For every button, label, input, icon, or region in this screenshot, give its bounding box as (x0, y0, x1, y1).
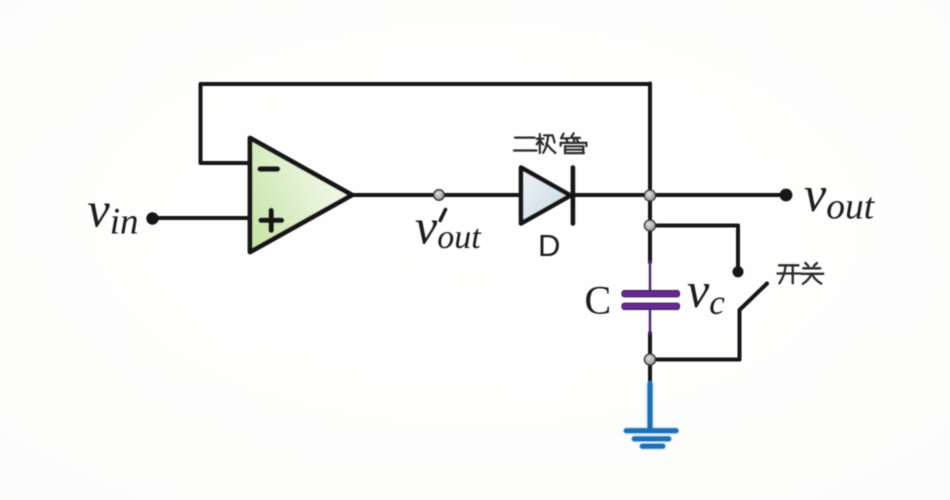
svg-text:D: D (538, 228, 560, 263)
svg-text:C: C (585, 278, 612, 323)
